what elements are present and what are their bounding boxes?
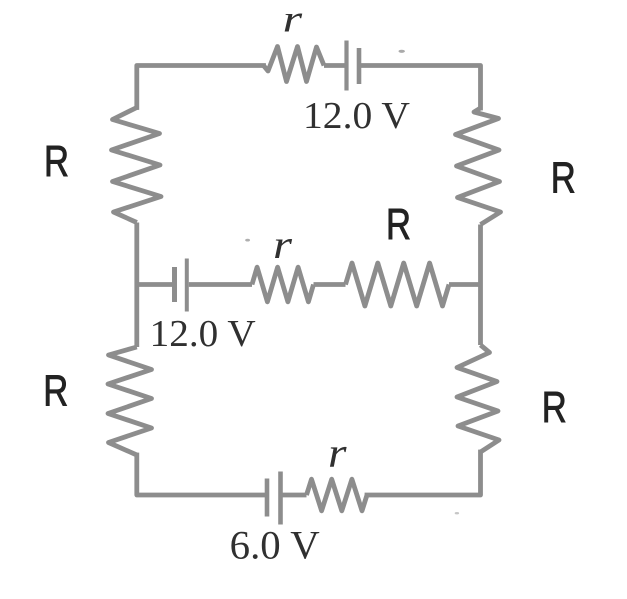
battery 12.0V middle: short plate [172, 267, 177, 302]
resistor r bottom [307, 479, 368, 511]
wire bottom between battery and r [283, 493, 307, 498]
resistor r top [264, 47, 325, 82]
wire top-right corner [361, 66, 481, 109]
wire middle branch left stub [137, 282, 172, 287]
wire bottom-left corner [137, 455, 265, 495]
svg-text:R: R [386, 200, 411, 249]
svg-text:R: R [551, 154, 576, 203]
battery 12.0V top: short plate [357, 48, 362, 84]
battery 6.0V: long plate [278, 472, 283, 525]
svg-text:r: r [283, 0, 303, 41]
wire bottom-right corner [367, 452, 481, 495]
resistor R left-top [112, 108, 162, 223]
battery 12.0V middle: long plate [185, 259, 189, 312]
resistor R middle [346, 263, 450, 306]
svg-text:12.0 V: 12.0 V [150, 313, 257, 355]
wire top-left corner [137, 66, 264, 108]
wire middle between battery and r [189, 282, 252, 287]
svg-text:R: R [43, 366, 68, 415]
svg-text:12.0 V: 12.0 V [303, 95, 411, 137]
resistor R left-bottom [108, 347, 152, 455]
svg-text:r: r [273, 222, 293, 267]
wire right middle vertical [478, 225, 483, 346]
wire middle between r and R [314, 282, 346, 287]
resistor r middle [252, 267, 314, 302]
battery 6.0V: short plate [265, 479, 270, 517]
svg-text:6.0 V: 6.0 V [230, 523, 320, 568]
resistor R right-top [456, 108, 501, 225]
wire left middle vertical [134, 223, 139, 348]
battery 12.0V top: long plate [344, 41, 348, 91]
svg-text:R: R [44, 137, 69, 186]
resistor R right-bottom [457, 345, 499, 452]
svg-text:r: r [328, 431, 347, 477]
wire middle right stub [449, 282, 481, 287]
wire top between r and battery [324, 63, 346, 68]
svg-text:R: R [542, 383, 567, 432]
